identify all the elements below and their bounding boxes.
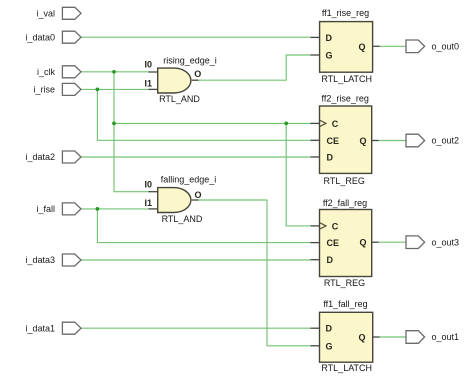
output port o_out3 [406, 236, 459, 249]
node junction i_fall branch [96, 207, 100, 211]
clock chevron C [320, 223, 326, 229]
box body [320, 106, 372, 173]
pin stub D [311, 156, 321, 158]
svg-text:I1: I1 [145, 198, 153, 208]
svg-text:Q: Q [359, 333, 366, 343]
wire Q ff2_fall to o_out3 [378, 241, 406, 243]
wire i_rise branch to ff2_rise CE [97, 89, 311, 140]
svg-text:i_data1: i_data1 [25, 323, 55, 333]
svg-text:ff2_fall_reg: ff2_fall_reg [323, 198, 367, 208]
pin stub D [311, 36, 321, 38]
and-gate falling_edge_i U2 [145, 175, 217, 225]
wire i_fall net to falling I1 [80, 208, 149, 210]
svg-text:I0: I0 [145, 179, 153, 189]
input port i_rise [33, 83, 81, 95]
svg-text:falling_edge_i: falling_edge_i [161, 175, 217, 185]
pin stub I1 [149, 88, 159, 90]
svg-text:D: D [326, 33, 333, 43]
wire i_clk net horizontal to rising I0 [80, 71, 149, 73]
wire i_data2 net [80, 156, 311, 158]
latch ff1_fall_reg [311, 299, 380, 373]
svg-text:Q: Q [360, 238, 367, 248]
svg-text:i_data2: i_data2 [25, 152, 55, 162]
input port i_val [36, 7, 81, 19]
svg-text:Q: Q [360, 136, 367, 146]
node junction on i_clk at rising I0 branch [112, 70, 116, 74]
input port i_data1 [25, 322, 81, 334]
svg-text:ff2_rise_reg: ff2_rise_reg [322, 94, 369, 104]
svg-text:D: D [327, 255, 334, 265]
pin stub G [311, 54, 321, 56]
input port i_clk [37, 66, 81, 78]
pin stub C [311, 122, 320, 124]
svg-text:o_out1: o_out1 [432, 332, 460, 342]
wire Q ff2_rise to o_out2 [378, 140, 406, 142]
gate body [158, 188, 191, 213]
gate body [158, 68, 191, 93]
svg-text:i_data3: i_data3 [25, 255, 55, 265]
pin stub Q [373, 336, 380, 338]
pin stub I0 [149, 191, 159, 193]
svg-text:RTL_LATCH: RTL_LATCH [321, 363, 372, 373]
input port i_data3 [25, 254, 81, 266]
latch ff1_rise_reg [311, 8, 380, 84]
clock chevron C [320, 120, 326, 126]
pin stub I0 [149, 71, 159, 73]
svg-text:o_out0: o_out0 [432, 42, 460, 52]
input port i_data0 [25, 31, 81, 43]
svg-text:CE: CE [327, 136, 340, 146]
svg-text:G: G [326, 51, 333, 61]
svg-text:C: C [332, 221, 339, 231]
node junction i_rise branch [96, 88, 100, 92]
wire i_clk C-line to ff2_rise C [114, 122, 311, 124]
wire i_data3 net [80, 259, 311, 261]
svg-text:i_rise: i_rise [33, 85, 55, 95]
svg-text:rising_edge_i: rising_edge_i [163, 55, 217, 65]
pin stub CE [311, 242, 321, 244]
wire i_fall branch to ff2_fall CE [97, 209, 311, 243]
svg-text:O: O [194, 69, 201, 79]
wire i_rise net to rising I1 [80, 88, 149, 90]
svg-text:RTL_LATCH: RTL_LATCH [321, 74, 372, 84]
wire i_clk branch down to ff2_fall C [286, 123, 311, 225]
pin stub Q [372, 140, 379, 142]
box body [320, 210, 372, 277]
register ff2_rise_reg [311, 94, 379, 187]
input port i_fall [36, 203, 81, 215]
wire i_data1 net [80, 327, 311, 329]
pin stub O [192, 199, 199, 201]
input port i_data2 [25, 151, 81, 163]
pin stub C [311, 225, 320, 227]
svg-text:i_fall: i_fall [36, 204, 55, 214]
svg-text:O: O [195, 190, 202, 200]
node junction i_clk to ff2_fall C [284, 122, 288, 126]
pin stub G [311, 345, 321, 347]
svg-text:C: C [332, 119, 339, 129]
wire rising_edge_i O to ff1_rise G [198, 55, 311, 80]
svg-text:o_out3: o_out3 [432, 237, 460, 247]
wire i_clk vertical branch [114, 72, 149, 192]
and-gate rising_edge_i U1 [145, 55, 217, 104]
svg-text:D: D [326, 324, 333, 334]
svg-text:RTL_AND: RTL_AND [162, 214, 203, 224]
pin stub Q [372, 241, 379, 243]
svg-text:o_out2: o_out2 [432, 136, 460, 146]
box body [320, 22, 373, 73]
wire i_data0 net [80, 36, 311, 38]
pin stub Q [373, 45, 380, 47]
wire Q ff1_rise to o_out0 [379, 45, 406, 47]
svg-text:RTL_REG: RTL_REG [324, 278, 365, 288]
svg-text:CE: CE [327, 238, 340, 248]
svg-text:i_val: i_val [36, 8, 55, 18]
output port o_out0 [406, 40, 459, 53]
svg-text:i_data0: i_data0 [25, 32, 55, 42]
pin stub I1 [149, 208, 159, 210]
pin stub CE [311, 139, 321, 141]
pin stub D [311, 327, 321, 329]
output port o_out1 [406, 331, 459, 344]
register ff2_fall_reg [311, 198, 379, 288]
box body [320, 312, 373, 362]
output port o_out2 [406, 134, 459, 147]
pin stub D [311, 259, 321, 261]
svg-text:I0: I0 [145, 60, 153, 70]
node junction i_clk C-line branch [112, 122, 116, 126]
svg-text:i_clk: i_clk [37, 67, 56, 77]
svg-text:D: D [327, 153, 334, 163]
pin stub O [192, 79, 199, 81]
svg-text:Q: Q [359, 42, 366, 52]
svg-text:I1: I1 [145, 78, 153, 88]
svg-text:RTL_REG: RTL_REG [324, 176, 365, 186]
svg-text:ff1_fall_reg: ff1_fall_reg [323, 299, 367, 309]
wire falling_edge_i O to ff1_fall G [198, 200, 311, 346]
svg-text:RTL_AND: RTL_AND [159, 94, 200, 104]
wire Q ff1_fall to o_out1 [379, 336, 406, 338]
svg-text:G: G [326, 341, 333, 351]
svg-text:ff1_rise_reg: ff1_rise_reg [322, 8, 369, 18]
